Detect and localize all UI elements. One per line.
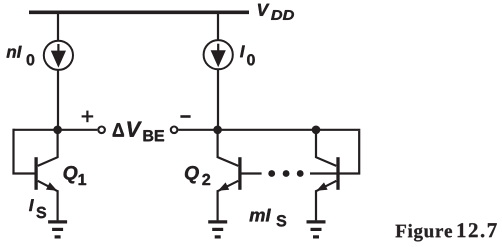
wire Q1 collector xyxy=(38,130,58,166)
label Q2 xyxy=(185,166,210,185)
label VDD xyxy=(258,4,294,20)
wire QN base-collector tie xyxy=(340,131,360,174)
label Q1 xyxy=(64,166,87,185)
wire Q1 emitter to ground xyxy=(56,190,58,220)
wire rail to current source I0 xyxy=(217,13,219,41)
wire Q2 emitter to ground xyxy=(217,190,219,220)
plus sign xyxy=(82,111,94,123)
plus terminal open circle xyxy=(98,127,105,134)
label IS xyxy=(29,199,46,218)
wire QN collector xyxy=(316,130,336,166)
node B junction dot xyxy=(213,126,222,135)
caption Figure 12.7 xyxy=(396,223,497,241)
wire minus terminal to right end xyxy=(178,129,360,131)
transistor Q2 xyxy=(218,157,240,191)
current source I0 xyxy=(204,40,233,69)
transistor QN (rightmost) xyxy=(316,157,338,191)
minus sign xyxy=(180,115,190,118)
node A junction dot xyxy=(53,126,62,135)
wire ellipsis to QN base xyxy=(310,172,337,174)
wire current source nI0 to node A xyxy=(57,69,59,129)
node C junction dot (QN collector) xyxy=(312,126,321,135)
label delta VBE xyxy=(113,122,164,142)
ellipsis dots xyxy=(268,170,303,177)
label nI0 xyxy=(7,46,35,66)
transistor Q1 xyxy=(36,157,58,191)
minus terminal open circle xyxy=(171,127,178,134)
ground (QN) xyxy=(307,222,326,237)
label I0 xyxy=(240,46,255,66)
ground (Q1) xyxy=(48,222,67,237)
wire node A row to plus terminal xyxy=(14,129,98,131)
ground (Q2) xyxy=(208,222,227,237)
wire Q2 collector xyxy=(218,130,239,166)
VDD rail xyxy=(29,11,249,15)
wire current source I0 to node B xyxy=(217,69,219,129)
wire Q2 base to ellipsis xyxy=(241,172,261,174)
wire Q1 base horizontal xyxy=(12,172,34,174)
wire rail to current source nI0 xyxy=(57,13,59,41)
wire QN emitter to ground xyxy=(315,190,317,220)
label mIS xyxy=(250,209,287,227)
wire Q1 base loop vertical xyxy=(12,129,14,174)
current source nI0 xyxy=(44,41,73,70)
